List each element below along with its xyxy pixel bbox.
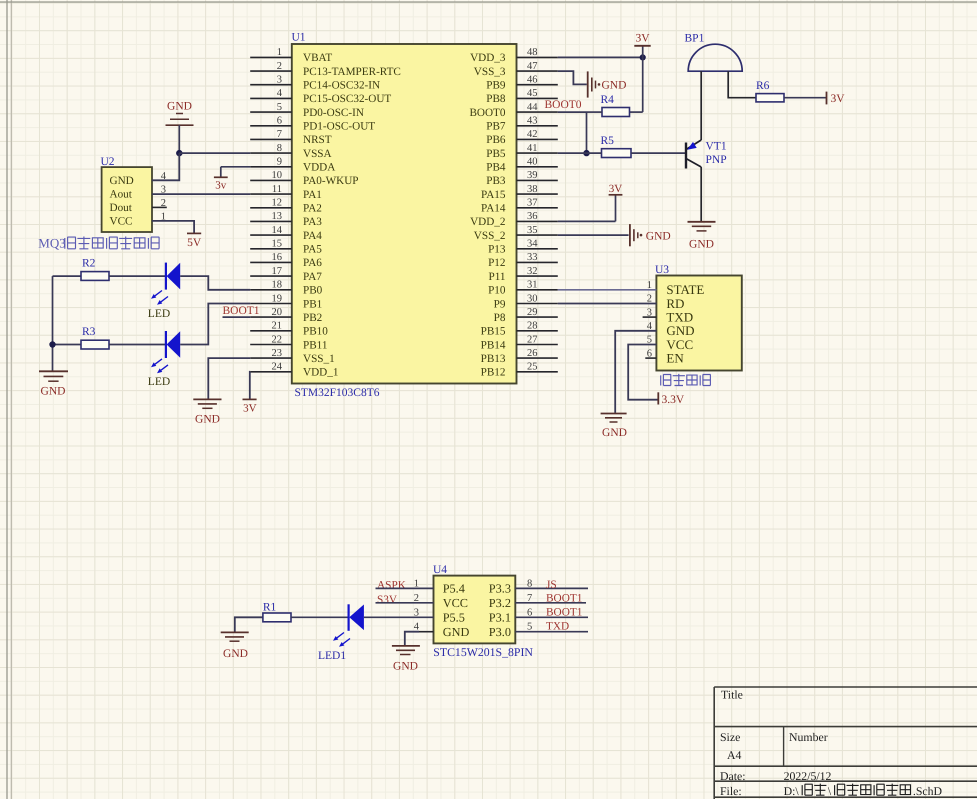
svg-text:PA0-WKUP: PA0-WKUP [303,175,359,187]
wire U4 pin7 + net label BOOT1 [515,592,586,604]
wire U1 pin47 VSS_3 to ground [558,71,587,84]
U4 designator label [433,564,447,576]
svg-text:File:: File: [720,784,742,798]
power 3V above pin48 [634,33,650,58]
svg-text:38: 38 [527,184,538,195]
svg-text:28: 28 [527,321,538,332]
svg-text:25: 25 [527,362,538,373]
wire U1 pin31 P10 to U3 pin1 STATE [558,289,657,291]
svg-text:JS: JS [546,579,557,591]
LED D1 (upper) [151,263,180,305]
U1 right pins 48-25 with numbers and names [469,47,557,378]
resistor R2 [81,257,166,280]
node junction at R5 left [583,150,589,156]
wire junction to U1 pin8 VSSA [179,152,250,154]
svg-text:3V: 3V [609,183,623,195]
svg-text:STM32F103C8T6: STM32F103C8T6 [295,387,380,399]
svg-text:3.3V: 3.3V [662,394,685,406]
svg-text:VDDA: VDDA [303,162,335,174]
wire U3 pin4 GND to ground [615,331,656,413]
svg-text:U1: U1 [292,32,306,44]
ground GND above U2 (inverted bars) [166,101,194,126]
wire junction down to U2 pin4 [152,153,179,180]
svg-text:VDD_2: VDD_2 [470,216,505,228]
U3 pin names and numbers [647,280,705,366]
U1 designator label [292,32,306,44]
title block Number label [789,730,828,744]
svg-text:32: 32 [527,266,538,277]
svg-text:D:\: D:\ [784,784,800,798]
svg-text:PB9: PB9 [486,80,506,92]
resistor R3 [81,326,166,349]
svg-text:VDD_3: VDD_3 [470,52,506,64]
svg-text:P10: P10 [488,285,506,297]
svg-text:36: 36 [527,211,538,222]
U3 designator label [655,264,669,276]
svg-text:S3V: S3V [377,594,398,606]
svg-text:20: 20 [272,307,283,318]
svg-text:11: 11 [272,184,282,195]
LED1 diode [333,604,364,647]
svg-text:GND: GND [195,414,220,426]
net label ASPK + wire U4 pin1 [376,580,434,592]
wire U4 pin8 + net label JS [515,579,588,591]
svg-text:PB12: PB12 [481,367,506,379]
svg-text:VBAT: VBAT [303,52,332,64]
wire U4 pin5 + net label TXD [515,620,588,632]
ground GND left of R1 [221,632,249,660]
svg-text:PB6: PB6 [486,134,506,146]
svg-text:Title: Title [721,688,743,702]
wire LED1 anode to U4 pin3 [364,616,434,618]
svg-text:P5.5: P5.5 [443,611,465,625]
wire GND up to R1 [235,617,263,632]
IC U4 body (STC15W201S) [434,576,516,644]
svg-text:Size: Size [720,730,740,744]
svg-text:GND: GND [41,386,66,398]
U1 left pins 1-24 with numbers and names [250,47,401,378]
title block A4 [727,748,742,762]
svg-text:BP1: BP1 [685,33,705,45]
svg-text:P3.3: P3.3 [489,582,511,596]
svg-text:GND: GND [602,80,627,92]
svg-text:PB7: PB7 [486,121,506,133]
svg-text:NRST: NRST [303,134,332,146]
wire R4 left down to R5 row [586,112,588,153]
svg-text:PC13-TAMPER-RTC: PC13-TAMPER-RTC [303,66,401,78]
svg-text:3V: 3V [831,93,846,105]
svg-text:GND: GND [646,231,671,243]
svg-text:PA7: PA7 [303,271,322,283]
svg-text:39: 39 [527,170,538,181]
svg-text:R5: R5 [601,135,615,147]
svg-text:42: 42 [527,129,538,140]
title block Date label [720,769,746,783]
svg-text:VSSA: VSSA [303,148,332,160]
svg-text:VT1: VT1 [706,141,727,153]
net label BOOT1 at U1 pin20 [223,305,260,317]
U3 pin6 EN stub [645,357,656,359]
resistor R1 [263,602,291,622]
svg-text:ASPK: ASPK [377,580,407,592]
svg-text:VSS_1: VSS_1 [303,353,335,365]
buzzer BP1 designator [685,33,705,45]
IC U2 body (MQ3 sensor) [102,167,152,232]
svg-text:EN: EN [666,351,684,366]
svg-text:29: 29 [527,307,538,318]
svg-text:VCC: VCC [443,596,468,610]
U2 type label MQ3 alcohol sensor [38,236,159,251]
transistor VT1 PNP [686,140,701,169]
wire U1 pin9 VDDA to 3V [221,166,250,168]
svg-text:P13: P13 [488,244,506,256]
LED D2 (lower) [151,331,180,373]
svg-text:P3.2: P3.2 [489,596,511,610]
svg-text:30: 30 [527,293,538,304]
svg-text:47: 47 [527,61,538,72]
svg-text:2022/5/12: 2022/5/12 [784,769,832,783]
wire left rail R2-R3-GND [52,276,54,371]
svg-text:6: 6 [277,116,282,127]
transistor VT1 labels [706,141,727,166]
svg-text:VCC: VCC [110,216,133,228]
wire U1 pin30 P9 to U3 pin2 RD [558,303,657,305]
power 5V symbol [187,233,202,249]
svg-text:P12: P12 [488,257,505,269]
svg-text:37: 37 [527,198,538,209]
title block Title label [721,688,743,702]
svg-text:P3.0: P3.0 [489,625,511,639]
LED1 label [318,650,346,662]
title block File label [720,784,742,798]
svg-text:STC15W201S_8PIN: STC15W201S_8PIN [433,645,533,659]
svg-text:8: 8 [277,143,282,154]
svg-text:5: 5 [277,102,282,113]
svg-text:35: 35 [527,225,538,236]
svg-text:PA3: PA3 [303,216,322,228]
svg-text:R6: R6 [756,80,770,92]
svg-text:Dout: Dout [110,202,133,214]
net label BOOT0 at U1 pin44 [545,99,582,111]
svg-text:GND: GND [167,101,192,113]
svg-text:26: 26 [527,348,538,359]
svg-text:17: 17 [272,266,283,277]
svg-text:48: 48 [527,47,538,58]
svg-text:PB0: PB0 [303,285,323,297]
svg-text:4: 4 [277,88,283,99]
svg-text:GND: GND [393,660,418,672]
ground GND left rail [39,371,68,397]
resistor R4 [587,94,630,117]
ground GND below U4 pin4 [392,646,420,672]
wire LED anode to U1 pin18 PB0 [180,276,250,290]
svg-text:PNP: PNP [706,154,727,166]
svg-text:U3: U3 [655,264,669,276]
svg-text:5V: 5V [187,237,202,249]
svg-text:2: 2 [277,61,282,72]
wire LED anode to U1 pin19 PB1 [180,304,250,345]
svg-text:33: 33 [527,252,538,263]
svg-text:PB11: PB11 [303,339,327,351]
wire U3 pin5 VCC to 3.3V [628,345,658,400]
svg-text:34: 34 [527,239,538,250]
wire BP1 left lead down to VT1 emitter [700,71,702,140]
svg-text:GND: GND [602,427,627,439]
svg-text:PA14: PA14 [481,203,506,215]
ground GND below VT1 [688,222,716,251]
svg-text:7: 7 [277,129,282,140]
title block date value [784,769,832,783]
svg-text:P8: P8 [494,312,506,324]
svg-text:Aout: Aout [110,189,133,201]
svg-text:22: 22 [272,334,283,345]
wire BP1 right lead to R6 [728,71,756,98]
svg-text:21: 21 [272,321,283,332]
svg-text:PB5: PB5 [486,148,506,160]
svg-text:PA5: PA5 [303,244,322,256]
power 3.3V at U3 [658,392,685,406]
wire junction to R3 [53,344,82,346]
svg-text:P3.1: P3.1 [489,611,511,625]
svg-text:GND: GND [689,239,714,251]
svg-text:15: 15 [272,239,283,250]
svg-text:PB14: PB14 [481,339,506,351]
IC U3 body (bluetooth) [656,276,741,371]
svg-text:.SchD: .SchD [913,784,943,798]
svg-text:BOOT1: BOOT1 [546,607,582,619]
svg-text:PA6: PA6 [303,257,322,269]
svg-text:PB4: PB4 [486,162,506,174]
power 3V below VDDA wire [214,167,228,192]
svg-text:PB10: PB10 [303,326,328,338]
wire R1 to LED1 [291,616,349,618]
buzzer BP1 body [688,44,742,71]
svg-text:R4: R4 [601,94,615,106]
svg-text:PB1: PB1 [303,298,322,310]
wire U1 pin48 VDD_3 to junction [558,56,643,58]
wire R5 to VT1 base [631,152,686,154]
svg-text:U2: U2 [101,156,115,168]
svg-text:PC15-OSC32-OUT: PC15-OSC32-OUT [303,93,391,105]
svg-text:MQ3: MQ3 [38,236,65,251]
U4 pin names and numbers [414,578,533,639]
resistor R6 [756,80,784,102]
svg-text:\: \ [828,784,832,798]
power 3V right of R6 [827,92,846,105]
svg-text:R3: R3 [82,326,96,338]
svg-text:VDD_1: VDD_1 [303,367,338,379]
svg-text:19: 19 [272,293,283,304]
svg-text:LED: LED [148,376,170,388]
svg-text:PB8: PB8 [486,93,506,105]
title block Size label [720,730,740,744]
LED label (upper) [148,308,170,320]
U4 type label STC15W201S_8PIN [433,645,533,659]
svg-text:Number: Number [789,730,828,744]
svg-text:VSS_2: VSS_2 [474,230,506,242]
svg-text:9: 9 [277,157,282,168]
power 3V below pin24 [243,399,257,414]
svg-text:PA15: PA15 [481,189,506,201]
svg-text:16: 16 [272,252,283,263]
svg-text:P11: P11 [489,271,506,283]
wire GND stem down to VSSA net [178,125,180,153]
ground GND sideways at pin47 [588,71,627,97]
title block file path [784,784,943,798]
wire U2 pin1 VCC to 5V [152,221,194,234]
svg-text:P9: P9 [494,298,506,310]
wire U2 pin3 Aout to U1 pin11 PA1 [152,193,250,195]
svg-text:3V: 3V [635,33,650,45]
svg-text:40: 40 [527,157,538,168]
svg-text:10: 10 [272,170,283,181]
svg-text:GND: GND [443,625,470,639]
svg-text:U4: U4 [433,564,447,576]
svg-text:43: 43 [527,116,538,127]
ground GND below U3 [601,414,627,440]
svg-text:PD0-OSC-IN: PD0-OSC-IN [303,107,364,119]
svg-text:PB15: PB15 [481,326,506,338]
ground GND sideways at pin35 [630,224,671,246]
svg-text:A4: A4 [727,748,742,762]
wire U1 pin36 VDD_2 to 3V [558,220,616,222]
node junction on VDD_3 [640,54,646,60]
wire junction down to R4 [630,57,643,112]
svg-text:3v: 3v [215,180,227,192]
svg-text:23: 23 [272,348,283,359]
U2 designator label [101,156,115,168]
wire U1 pin23 VSS_1 to ground [208,358,250,399]
svg-text:PA2: PA2 [303,203,322,215]
svg-text:46: 46 [527,75,538,86]
svg-text:3: 3 [277,75,282,86]
svg-text:24: 24 [272,362,283,373]
svg-text:GND: GND [223,648,248,660]
svg-text:27: 27 [527,334,538,345]
svg-text:PB2: PB2 [303,312,322,324]
power 3V at pin36 [609,183,623,221]
wire U4 pin6 + net label BOOT1 [515,607,588,619]
ground GND below pin23 [193,399,221,425]
svg-text:12: 12 [272,198,283,209]
wire R6 to 3V [784,97,827,99]
wire U1 pin44 BOOT0 to R4 [558,111,587,113]
svg-text:PC14-OSC32-IN: PC14-OSC32-IN [303,80,380,92]
svg-text:BOOT1: BOOT1 [223,305,260,317]
svg-text:1: 1 [277,47,282,58]
wire U4 pin4 GND to ground [405,632,434,645]
wire U1 pin41 to R5 [558,152,602,154]
U2 pin names and numbers [110,171,167,228]
resistor R5 [601,135,632,157]
U3 type label bluetooth module [661,374,711,386]
wire U1 pin35 VSS_2 to ground [558,234,629,236]
svg-text:GND: GND [110,175,134,187]
svg-text:PA1: PA1 [303,189,322,201]
svg-text:PA4: PA4 [303,230,322,242]
svg-text:45: 45 [527,88,538,99]
title block frame [714,687,977,799]
svg-text:P5.4: P5.4 [443,582,465,596]
svg-text:PB13: PB13 [481,353,506,365]
svg-text:14: 14 [272,225,283,236]
svg-text:R1: R1 [263,602,277,614]
U2 pin 2 stub (Dout) [152,206,167,208]
wire U1 pin24 VDD_1 to 3V [249,372,251,400]
svg-text:44: 44 [527,102,538,113]
svg-text:3V: 3V [243,403,257,415]
svg-text:BOOT0: BOOT0 [469,107,505,119]
svg-text:31: 31 [527,280,538,291]
svg-text:41: 41 [527,143,538,154]
node junction at VSSA wire [176,150,182,156]
U1 part type label STM32F103C8T6 [295,387,380,399]
svg-text:LED: LED [148,308,170,320]
svg-text:Date:: Date: [720,769,746,783]
IC U1 body (STM32F103C8T6) [292,44,517,384]
svg-text:LED1: LED1 [318,650,346,662]
wire VT1 collector down to GND [700,167,702,222]
svg-text:BOOT1: BOOT1 [546,592,582,604]
svg-text:18: 18 [272,280,283,291]
svg-text:R2: R2 [82,257,96,269]
LED label (lower) [148,376,170,388]
net label S3V + wire U4 pin2 [376,594,434,606]
svg-text:13: 13 [272,211,283,222]
svg-text:VSS_3: VSS_3 [474,66,506,78]
wire left rail to R2 [53,275,82,277]
svg-text:PD1-OSC-OUT: PD1-OSC-OUT [303,121,375,133]
svg-text:BOOT0: BOOT0 [545,99,582,111]
U3 pin3 TXD stub [643,316,657,318]
svg-text:TXD: TXD [546,620,569,632]
svg-text:PB3: PB3 [486,175,506,187]
node junction at R3 left [49,341,55,347]
